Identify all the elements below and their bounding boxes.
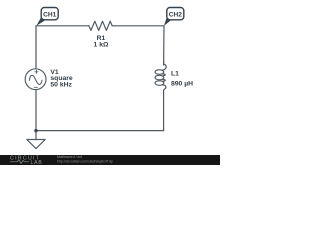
- voltage source V1: [25, 69, 46, 90]
- wire right vertical upper: [163, 26, 165, 65]
- watermark bar: [0, 155, 220, 166]
- wire bottom horizontal: [36, 130, 164, 132]
- svg-text:CH2: CH2: [169, 11, 183, 18]
- node CH1 flag: [36, 8, 58, 26]
- label R1 value: [94, 35, 109, 48]
- node CH2 flag: [164, 8, 184, 26]
- svg-text:1 kΩ: 1 kΩ: [94, 41, 109, 48]
- svg-text:CH1: CH1: [43, 11, 57, 18]
- svg-text:LAB: LAB: [31, 160, 43, 165]
- svg-text:Mathsword / lml: Mathsword / lml: [57, 155, 82, 159]
- node junction dot: [34, 129, 38, 133]
- svg-text:890 µH: 890 µH: [171, 81, 193, 88]
- inductor L1: [155, 70, 164, 75]
- wire left vertical upper: [35, 26, 37, 69]
- svg-text:50 kHz: 50 kHz: [50, 82, 72, 89]
- wire right vertical lower: [163, 92, 165, 131]
- svg-text:http://circuitlab.com/c8aTakq8: http://circuitlab.com/c8aTakq8c4Tdp: [57, 160, 113, 164]
- svg-text:L1: L1: [171, 71, 179, 78]
- ground: [27, 140, 45, 149]
- label V1 value: [50, 69, 73, 89]
- label L1 value: [171, 71, 193, 88]
- resistor R1: [89, 21, 112, 30]
- wire top-right horizontal: [112, 25, 164, 27]
- wire left vertical lower: [35, 90, 37, 140]
- wire top-left horizontal: [36, 25, 89, 27]
